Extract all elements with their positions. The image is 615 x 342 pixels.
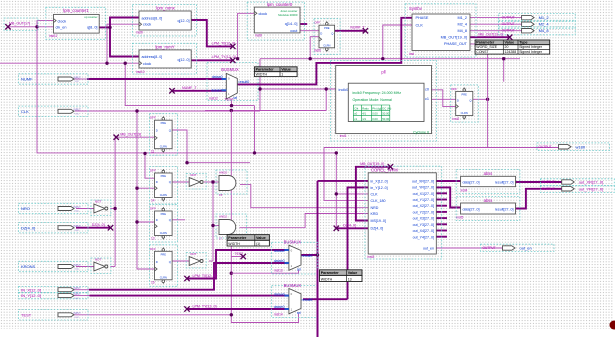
svg-text:Parameter: Parameter (321, 271, 340, 275)
svg-text:BUSMUX: BUSMUX (284, 283, 302, 288)
svg-text:Clk: Clk (354, 106, 359, 110)
svg-text:13: 13 (151, 237, 155, 241)
svg-text:OUTPUT: OUTPUT (542, 180, 555, 184)
svg-text:clock: clock (143, 62, 151, 66)
svg-text:WIDTH: WIDTH (228, 242, 240, 246)
svg-text:DZ[4..0]: DZ[4..0] (92, 223, 105, 227)
svg-text:Value: Value (505, 41, 515, 45)
svg-text:pll: pll (381, 70, 385, 75)
svg-text:D: D (156, 180, 158, 184)
svg-text:clock: clock (143, 23, 151, 27)
svg-text:50.00: 50.00 (382, 112, 389, 116)
svg-text:17: 17 (219, 237, 223, 241)
svg-text:MS[19..0]: MS[19..0] (371, 219, 386, 223)
svg-text:BUSMUX: BUSMUX (221, 67, 239, 72)
svg-text:out_en: out_en (520, 246, 532, 251)
svg-text:M2_4: M2_4 (539, 22, 550, 27)
svg-text:INPUT: INPUT (74, 287, 82, 290)
svg-text:4/1: 4/1 (362, 112, 366, 116)
svg-text:inst10: inst10 (136, 70, 145, 74)
svg-text:20: 20 (505, 45, 509, 49)
svg-text:Synthv: Synthv (409, 6, 423, 11)
svg-text:inst9: inst9 (136, 31, 143, 35)
svg-text:out_YR[27..0]: out_YR[27..0] (412, 186, 434, 190)
svg-text:dataa0: dataa0 (274, 292, 285, 296)
svg-text:c1: c1 (354, 117, 357, 121)
svg-text:out_en: out_en (423, 246, 434, 250)
svg-text:DFF: DFF (315, 21, 321, 25)
svg-text:sel: sel (233, 96, 237, 100)
svg-text:WIDTH: WIDTH (321, 277, 333, 281)
svg-text:inst3: inst3 (368, 255, 375, 259)
svg-text:address[8..0]: address[8..0] (142, 55, 163, 59)
svg-text:0.00: 0.00 (372, 112, 378, 116)
svg-text:out_Y4[27..0]: out_Y4[27..0] (413, 235, 434, 239)
svg-text:out_X1[27..0]: out_X1[27..0] (413, 192, 434, 196)
svg-text:16: 16 (151, 281, 155, 285)
svg-text:124288: 124288 (505, 50, 517, 54)
svg-text:out_XR[27..0]: out_XR[27..0] (412, 179, 434, 183)
svg-text:cout: cout (290, 29, 298, 33)
svg-text:IN_Y[12..0]: IN_Y[12..0] (21, 293, 41, 298)
svg-text:result0: result0 (239, 80, 250, 84)
svg-text:Ratio: Ratio (362, 106, 369, 110)
svg-text:M1_2: M1_2 (458, 16, 468, 20)
svg-text:inst4: inst4 (461, 189, 468, 193)
svg-text:CLK: CLK (21, 109, 29, 114)
svg-text:COREL_WFM: COREL_WFM (371, 167, 398, 172)
svg-text:LPM_TY[12..0]: LPM_TY[12..0] (193, 305, 217, 309)
svg-text:data[27..0]: data[27..0] (463, 181, 480, 185)
svg-text:D: D (156, 218, 158, 222)
svg-text:VCC: VCC (75, 230, 80, 232)
svg-text:inst14: inst14 (274, 312, 283, 316)
svg-text:inst5: inst5 (457, 216, 464, 220)
svg-text:NUMF: NUMF (21, 77, 33, 82)
svg-text:AND2: AND2 (219, 171, 227, 175)
svg-text:VCC: VCC (75, 298, 80, 300)
svg-text:OUTPUT: OUTPUT (502, 22, 515, 26)
svg-text:lpm_counter1: lpm_counter1 (63, 8, 89, 13)
svg-text:VCC: VCC (75, 211, 80, 213)
svg-text:DFF: DFF (150, 116, 156, 120)
svg-text:DZ[4..0]: DZ[4..0] (21, 225, 35, 230)
svg-text:MB_OUT[17]: MB_OUT[17] (9, 21, 30, 25)
svg-text:VCC: VCC (75, 114, 80, 116)
svg-text:PRE: PRE (324, 26, 330, 30)
svg-text:result0: result0 (302, 254, 313, 258)
svg-text:1/1: 1/1 (362, 117, 366, 121)
svg-text:WORD_SIZE: WORD_SIZE (476, 45, 497, 49)
svg-text:OUTPUT: OUTPUT (502, 29, 515, 33)
svg-text:PRE: PRE (161, 174, 167, 178)
svg-text:LPM_T0[12..0]: LPM_T0[12..0] (193, 274, 217, 278)
svg-text:DFF: DFF (451, 87, 457, 91)
svg-text:14: 14 (151, 199, 155, 203)
svg-text:VCC: VCC (75, 317, 80, 319)
svg-text:CLRN: CLRN (323, 43, 330, 47)
svg-text:CLRN: CLRN (461, 111, 468, 115)
svg-text:q[8..0]: q[8..0] (87, 26, 98, 30)
svg-text:result[27..0]: result[27..0] (495, 207, 514, 211)
svg-text:out_Y1[27..0]: out_Y1[27..0] (413, 198, 434, 202)
svg-text:result[27..0]: result[27..0] (495, 181, 514, 185)
svg-text:WIDTH: WIDTH (256, 72, 268, 76)
svg-text:sel: sel (297, 267, 301, 271)
svg-text:INPUT: INPUT (74, 225, 82, 228)
svg-text:lpm_romY: lpm_romY (155, 45, 174, 50)
svg-text:DZ[4..0]: DZ[4..0] (343, 224, 356, 228)
svg-text:inst13: inst13 (274, 268, 283, 272)
svg-text:inst11: inst11 (49, 34, 57, 38)
svg-text:OUTPUT: OUTPUT (539, 145, 552, 149)
svg-text:out_YR[27..0]: out_YR[27..0] (579, 186, 603, 191)
svg-text:13: 13 (348, 277, 352, 281)
svg-text:OUTPUT: OUTPUT (542, 187, 555, 191)
svg-text:abss: abss (484, 198, 493, 203)
svg-text:D: D (320, 32, 322, 36)
svg-text:INPUT: INPUT (74, 293, 82, 296)
svg-text:inst6: inst6 (314, 49, 321, 53)
svg-text:BUSMUX: BUSMUX (284, 239, 302, 244)
svg-text:CLRN: CLRN (160, 193, 167, 197)
svg-text:Operation Mode: Normal: Operation Mode: Normal (353, 98, 393, 102)
svg-text:address[8..0]: address[8..0] (142, 16, 163, 20)
svg-text:abss: abss (484, 171, 493, 176)
svg-text:MB_OUT[19..0]: MB_OUT[19..0] (478, 32, 503, 36)
svg-text:c0: c0 (354, 112, 357, 116)
svg-text:inclk0 Frequency: 24.000 MHz: inclk0 Frequency: 24.000 MHz (353, 91, 402, 95)
svg-text:data[27..0]: data[27..0] (463, 207, 480, 211)
svg-text:datab0: datab0 (211, 89, 222, 93)
svg-text:Value: Value (348, 271, 358, 275)
svg-text:Cyclone II: Cyclone II (413, 130, 429, 134)
svg-text:inst2: inst2 (453, 117, 460, 121)
svg-text:MB_OUT[19]: MB_OUT[19] (120, 133, 141, 137)
svg-text:Value: Value (256, 236, 266, 240)
svg-text:KRD: KRD (371, 212, 379, 216)
svg-text:sel: sel (297, 311, 301, 315)
svg-text:CLRN: CLRN (160, 275, 167, 279)
svg-text:D: D (457, 98, 459, 102)
svg-text:q[12..0]: q[12..0] (178, 19, 190, 23)
svg-text:Signed Integer: Signed Integer (519, 50, 543, 54)
svg-text:M4_8: M4_8 (539, 28, 550, 33)
svg-text:clock: clock (58, 19, 67, 23)
svg-text:Signed Integer: Signed Integer (519, 45, 543, 49)
svg-text:15: 15 (219, 193, 223, 197)
svg-text:out_X2[27..0]: out_X2[27..0] (413, 204, 434, 208)
svg-text:DC (%): DC (%) (382, 106, 391, 110)
svg-text:50.00: 50.00 (382, 117, 389, 121)
svg-text:clock: clock (259, 12, 268, 16)
svg-text:CLK_180: CLK_180 (371, 199, 386, 203)
svg-text:Parameter: Parameter (256, 68, 275, 72)
svg-text:PRE: PRE (161, 121, 167, 125)
svg-text:PRE: PRE (161, 212, 167, 216)
svg-text:11: 11 (151, 150, 155, 154)
svg-text:Parameter: Parameter (228, 236, 247, 240)
svg-text:MB_OUT[19..0]: MB_OUT[19..0] (441, 36, 467, 40)
svg-text:TEST: TEST (21, 312, 32, 317)
svg-text:(1): (1) (256, 242, 260, 246)
svg-text:1: 1 (281, 72, 283, 76)
svg-text:inst12: inst12 (209, 96, 218, 100)
svg-text:CLK: CLK (371, 192, 379, 196)
svg-text:PRE: PRE (161, 252, 167, 256)
svg-text:VCC: VCC (75, 81, 80, 83)
svg-text:NRO: NRO (21, 206, 30, 211)
svg-text:MB_OUT[19..0]: MB_OUT[19..0] (360, 162, 384, 166)
svg-text:INPUT: INPUT (74, 76, 82, 79)
svg-text:out_Y2[27..0]: out_Y2[27..0] (413, 211, 434, 215)
svg-text:OUTPUT: OUTPUT (483, 246, 496, 250)
svg-text:c0: c0 (425, 87, 429, 91)
svg-text:CLRN: CLRN (160, 144, 167, 148)
svg-text:DFF: DFF (150, 247, 156, 251)
svg-text:Value: Value (281, 68, 291, 72)
svg-text:datab0: datab0 (274, 305, 285, 309)
svg-text:dataa0: dataa0 (212, 75, 223, 79)
svg-text:CLRN: CLRN (160, 231, 167, 235)
svg-text:lpm_counter0: lpm_counter0 (267, 2, 293, 7)
svg-text:up counter: up counter (84, 15, 97, 19)
svg-text:PHASE_OUT: PHASE_OUT (444, 42, 468, 46)
svg-text:DZ[4..0]: DZ[4..0] (371, 227, 384, 231)
svg-text:inclk0: inclk0 (339, 88, 349, 92)
svg-text:NRD: NRD (371, 206, 379, 210)
svg-text:IN_X[12..0]: IN_X[12..0] (21, 287, 41, 292)
svg-text:CONST: CONST (476, 50, 489, 54)
svg-text:DFF: DFF (150, 207, 156, 211)
svg-text:OUTPUT: OUTPUT (502, 16, 515, 20)
svg-text:PHASE: PHASE (416, 16, 429, 20)
svg-text:inst8: inst8 (255, 34, 262, 38)
svg-text:VCC: VCC (75, 269, 80, 271)
svg-text:datab0: datab0 (274, 259, 285, 263)
svg-text:D: D (156, 129, 158, 133)
svg-text:NUMF_T: NUMF_T (182, 86, 197, 90)
svg-text:out_XR[27..0]: out_XR[27..0] (579, 180, 603, 185)
svg-text:0.00: 0.00 (372, 117, 378, 121)
svg-text:result0: result0 (302, 298, 313, 302)
svg-text:Modulus 20000: Modulus 20000 (278, 13, 298, 17)
svg-text:inst1: inst1 (340, 134, 347, 138)
svg-text:out_X4[27..0]: out_X4[27..0] (413, 229, 434, 233)
svg-text:D: D (156, 260, 158, 264)
svg-text:INPUT: INPUT (74, 312, 82, 315)
svg-text:M2_4: M2_4 (458, 23, 468, 27)
svg-text:q[14..0]: q[14..0] (285, 22, 298, 26)
svg-text:INPUT: INPUT (74, 206, 82, 209)
svg-text:INPUT: INPUT (74, 264, 82, 267)
svg-text:Ph (dg): Ph (dg) (372, 106, 381, 110)
svg-text:clk_en: clk_en (56, 26, 67, 30)
svg-text:w180: w180 (576, 144, 586, 149)
svg-text:Parameter: Parameter (476, 41, 495, 45)
svg-text:M1_2: M1_2 (539, 15, 550, 20)
svg-text:out_Y3[27..0]: out_Y3[27..0] (413, 223, 434, 227)
svg-text:M4_8: M4_8 (458, 29, 468, 33)
svg-text:DFF: DFF (150, 169, 156, 173)
svg-text:out_X3[27..0]: out_X3[27..0] (413, 217, 434, 221)
svg-text:lpm_romx: lpm_romx (156, 5, 175, 10)
svg-text:inst: inst (409, 52, 414, 56)
svg-text:AND2: AND2 (219, 215, 227, 219)
svg-text:LPM_TY[12..0]: LPM_TY[12..0] (212, 55, 236, 59)
svg-text:KRONS: KRONS (21, 264, 36, 269)
svg-text:CLK: CLK (416, 23, 424, 27)
svg-text:dataa0: dataa0 (274, 249, 285, 253)
svg-text:in_X[12..0]: in_X[12..0] (371, 179, 388, 183)
svg-text:PRE: PRE (462, 92, 468, 96)
svg-text:c1: c1 (425, 97, 429, 101)
svg-text:INPUT: INPUT (74, 109, 82, 112)
svg-text:q[12..0]: q[12..0] (178, 58, 190, 62)
svg-text:Type: Type (519, 41, 527, 45)
svg-text:TEST: TEST (225, 97, 234, 101)
svg-text:in_Y[12..0]: in_Y[12..0] (371, 186, 388, 190)
